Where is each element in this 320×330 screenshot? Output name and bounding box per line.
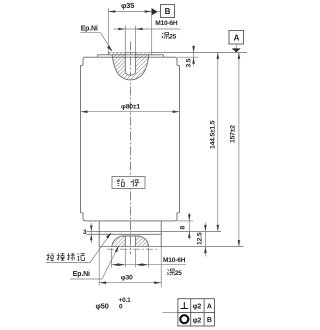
- svg-text:0: 0: [119, 304, 123, 311]
- label depth25 bottom (CJK glyph + 25): [167, 269, 175, 275]
- label Ep.Ni bottom leader: [102, 247, 118, 280]
- dimension 144.5 arrow bottom: [217, 225, 220, 232]
- body step top right: [177, 64, 180, 66]
- svg-text:M10-6H: M10-6H: [155, 20, 178, 27]
- top cap brim left edge: [97, 55, 99, 57]
- skirt bottom extension right (for 8 dim): [177, 220, 193, 222]
- dimension 12.5 arrow top: [204, 225, 207, 232]
- svg-text:157±2: 157±2: [230, 125, 237, 143]
- top cup hole right wall: [135, 52, 137, 72]
- dimension phi35 arrow left: [108, 10, 115, 13]
- dimension phi50 arrow right: [154, 281, 161, 284]
- dimension 12.5 arrow bottom: [204, 247, 207, 254]
- top cap brim top line: [98, 54, 164, 56]
- thread M10 extension line right: [135, 26, 137, 53]
- bottom dome hatched wall left: [112, 236, 125, 247]
- label Ep.Ni top leader: [101, 33, 113, 51]
- dimension phi35 arrow right: [145, 10, 152, 13]
- nameplate char pai: [131, 179, 139, 187]
- svg-text:M10-6H: M10-6H: [163, 257, 186, 264]
- datum B stub: [158, 11, 161, 13]
- svg-text:25: 25: [175, 270, 182, 277]
- svg-text:A: A: [207, 303, 212, 310]
- svg-text:3: 3: [83, 229, 87, 236]
- dimension phi30 line with M10 landing: [112, 264, 187, 266]
- dimension phi35 extension line right: [151, 8, 153, 52]
- dimension 3.5 arrow top: [192, 46, 195, 52]
- dimension 8 arrow bottom: [188, 231, 191, 238]
- body step top left: [81, 64, 84, 66]
- centerline vertical axis: [130, 42, 132, 255]
- bottom cap right edge: [160, 221, 162, 247]
- dimension phi80 arrow right: [173, 110, 180, 113]
- feature control frame grid: [178, 299, 215, 326]
- dimension phi80 line: [81, 111, 180, 113]
- top cap hatched section (crown ring + cup wall, hole subtracted): [108, 52, 151, 80]
- bottom cap flange top line with extensions: [87, 230, 222, 232]
- dimension 157 arrow bottom: [238, 240, 241, 247]
- dimension 157 line: [238, 52, 240, 246]
- bottom cap bottom line with right extension: [99, 246, 243, 248]
- feature control frame leader stub: [163, 311, 178, 313]
- dimension 8 line: [188, 213, 190, 240]
- ceramic body right edge: [178, 65, 180, 213]
- bottom horizontal centerline: [107, 248, 157, 250]
- svg-text:3.5: 3.5: [186, 58, 193, 67]
- dimension 8 arrow top: [188, 214, 191, 221]
- dimension phi30 arrow left: [112, 263, 119, 266]
- thread M10 bottom extension left: [124, 249, 126, 268]
- svg-text:12.5: 12.5: [197, 232, 204, 245]
- dimension phi35 line: [108, 11, 151, 13]
- body step bottom left: [81, 212, 84, 214]
- dimension phi35 extension line left: [107, 8, 109, 52]
- thread M10 arrow right: [136, 28, 143, 31]
- dimension phi50 extension left: [98, 247, 100, 286]
- dimension phi50 line: [99, 282, 161, 284]
- label Ep.Ni top leader arrow: [107, 46, 113, 52]
- body step bottom right: [177, 212, 180, 214]
- label shaomo leader: [90, 233, 111, 262]
- svg-text:φ50: φ50: [96, 302, 109, 311]
- bottom dome hatched wall right: [136, 236, 149, 247]
- dimension 157 arrow top: [238, 52, 241, 59]
- top cap crown left edge: [107, 52, 109, 54]
- top cup hole left wall: [124, 52, 126, 72]
- dimension 12.5 line: [204, 223, 206, 257]
- svg-text:A: A: [234, 34, 240, 43]
- svg-text:B: B: [207, 317, 212, 324]
- dimension 3.5 arrow bottom: [192, 57, 195, 64]
- svg-text:Ep.Ni: Ep.Ni: [73, 271, 90, 278]
- datum A stub: [235, 44, 237, 48]
- svg-text:+0.1: +0.1: [119, 297, 132, 304]
- datum A triangle: [232, 48, 241, 52]
- dimension 3 line left: [90, 223, 92, 243]
- dimension 144.5 arrow top: [217, 52, 220, 59]
- svg-text:8: 8: [180, 226, 187, 230]
- label Ep.Ni top underline: [81, 32, 101, 34]
- label shaomo biaoji (firing mark): [47, 253, 86, 261]
- ceramic lid outline: [83, 57, 177, 65]
- bottom cap left edge: [98, 221, 100, 247]
- datum A box: [229, 31, 244, 45]
- thread M10 bottom extension right: [135, 249, 137, 268]
- dimension 144.5 line: [217, 52, 219, 231]
- svg-text:φ35: φ35: [121, 1, 134, 10]
- svg-text:25: 25: [169, 34, 176, 41]
- perpendicularity symbol: [181, 302, 189, 309]
- label Ep.Ni bottom leader arrow: [115, 246, 119, 253]
- svg-text:Ep.Ni: Ep.Ni: [81, 26, 98, 33]
- dimension phi30 extension right: [148, 248, 150, 268]
- dimension 3.5 line: [193, 45, 195, 66]
- svg-text:144.5±1.5: 144.5±1.5: [210, 120, 217, 149]
- svg-text:B: B: [165, 7, 171, 16]
- top cup outer profile: [112, 55, 149, 80]
- top cap crown right edge: [151, 52, 153, 54]
- bottom dome hole left wall: [124, 236, 126, 247]
- ceramic body left edge: [81, 65, 83, 213]
- svg-text:φ30: φ30: [121, 274, 133, 281]
- bottom dome hole right wall: [135, 236, 137, 247]
- dimension 3 arrow bottom: [90, 234, 93, 240]
- svg-text:φ2: φ2: [193, 304, 202, 311]
- dimension 3 arrow top: [90, 225, 93, 231]
- dimension phi30 arrow right: [142, 263, 149, 266]
- nameplate box: [112, 177, 145, 189]
- ceramic skirt outline: [83, 213, 177, 221]
- datum B triangle: [152, 8, 158, 15]
- lid top extension line right (for 3.5 dim): [177, 56, 198, 58]
- svg-text:φ80±1: φ80±1: [121, 104, 140, 111]
- label shaomo leader arrow: [106, 232, 112, 238]
- label Ep.Ni bottom underline: [70, 278, 102, 280]
- label depth25 top (CJK glyph + 25): [162, 33, 170, 39]
- datum B box: [161, 5, 175, 18]
- thread M10 bottom arrow right: [136, 263, 143, 266]
- bottom dome outer profile: [112, 236, 149, 247]
- thread M10 bottom arrow left: [118, 263, 125, 266]
- top cap crown line (extends right to datum A): [108, 51, 247, 53]
- svg-text:φ2: φ2: [193, 317, 202, 324]
- dimension phi50 extension right: [160, 247, 162, 288]
- bottom cap flange second line: [87, 233, 162, 235]
- thread M10 dimension line with right landing: [114, 28, 181, 30]
- top cap brim right edge: [163, 55, 165, 57]
- thread M10 extension line left: [124, 26, 126, 53]
- dimension phi30 extension left: [111, 248, 113, 268]
- dimension phi50 arrow left: [99, 281, 106, 284]
- label shaomo underline: [46, 262, 90, 264]
- concentricity symbol: [180, 315, 188, 323]
- dimension phi80 arrow left: [81, 110, 88, 113]
- thread M10 arrow left: [118, 28, 125, 31]
- nameplate char ming: [117, 179, 125, 186]
- top cup hole bottom: [125, 73, 135, 75]
